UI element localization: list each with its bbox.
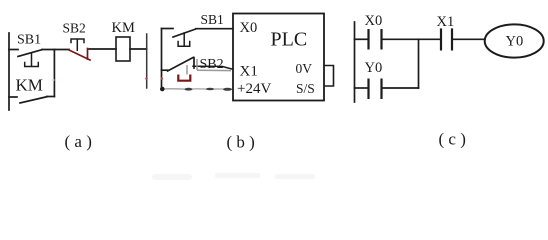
svg-text:Y0: Y0: [365, 60, 383, 76]
svg-text:X1: X1: [437, 14, 455, 30]
svg-text:( c ): ( c ): [439, 130, 466, 149]
svg-text:KM: KM: [16, 76, 43, 95]
svg-text:SB1: SB1: [201, 12, 224, 27]
svg-text:0V: 0V: [296, 61, 313, 76]
svg-text:SB1: SB1: [17, 33, 41, 48]
svg-text:X1: X1: [240, 64, 258, 80]
svg-text:Y0: Y0: [506, 34, 524, 50]
svg-text:S/S: S/S: [296, 81, 315, 96]
svg-text:+24V: +24V: [237, 81, 271, 97]
svg-text:SB2: SB2: [200, 57, 224, 72]
svg-text:( a ): ( a ): [65, 132, 92, 151]
svg-text:X0: X0: [365, 13, 383, 29]
svg-text:KM: KM: [112, 20, 135, 36]
svg-text:PLC: PLC: [271, 29, 308, 51]
svg-text:SB2: SB2: [63, 21, 86, 36]
svg-text:X0: X0: [240, 20, 258, 36]
svg-text:( b ): ( b ): [227, 133, 255, 152]
